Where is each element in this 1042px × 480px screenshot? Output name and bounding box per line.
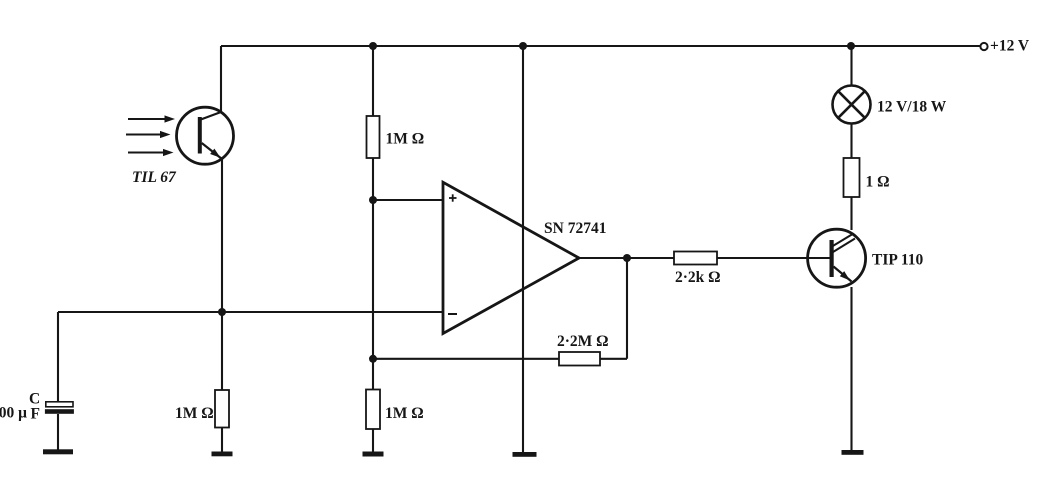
svg-text:F: F — [31, 406, 40, 423]
svg-text:SN 72741: SN 72741 — [544, 220, 606, 237]
svg-text:1 Ω: 1 Ω — [866, 174, 890, 191]
svg-text:2·2k Ω: 2·2k Ω — [675, 269, 721, 286]
svg-text:1M Ω: 1M Ω — [386, 131, 425, 148]
svg-text:100 μ: 100 μ — [0, 405, 27, 422]
svg-text:1M Ω: 1M Ω — [385, 405, 424, 422]
svg-text:TIL 67: TIL 67 — [132, 169, 177, 186]
svg-text:TIP 110: TIP 110 — [872, 252, 924, 269]
svg-text:1M Ω: 1M Ω — [175, 405, 214, 422]
svg-text:12 V/18 W: 12 V/18 W — [877, 99, 947, 116]
svg-text:2·2M Ω: 2·2M Ω — [557, 333, 609, 350]
svg-text:+12 V: +12 V — [990, 38, 1030, 55]
